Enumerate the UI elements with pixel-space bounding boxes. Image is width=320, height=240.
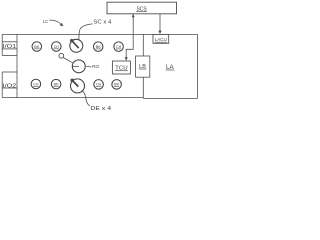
wire SCS to TCU (126, 14, 133, 59)
photoconductor drum CH (bottom row 3) (94, 80, 104, 90)
developing unit DE1 (top pen circle) (70, 39, 83, 52)
svg-text:BK: BK (96, 44, 102, 49)
leader squiggle to RO label (86, 65, 91, 68)
svg-text:DE x 4: DE x 4 (91, 106, 112, 112)
tray I/O2 (2, 72, 17, 90)
wire LB to bottom edge (142, 77, 144, 98)
box TCU (double border) (112, 61, 130, 74)
wire SCS to LACU (159, 14, 161, 32)
svg-text:CH: CH (33, 81, 38, 86)
photoconductor drum CH (top row 2) (52, 42, 62, 52)
svg-text:CH: CH (116, 44, 121, 49)
svg-text:BK: BK (34, 44, 40, 49)
arrowhead into LACU (159, 31, 162, 34)
photoconductor drum BK (bottom row 4) (112, 80, 122, 90)
photoconductor drum CH (top row 4) (114, 42, 124, 52)
arrowhead into TCU (125, 57, 128, 61)
leader arrow from LC (50, 20, 61, 23)
svg-text:CH: CH (54, 44, 59, 49)
arrowhead into SCS (from TCU line) (132, 14, 135, 17)
developing unit DE2 (bottom pen circle) (70, 79, 84, 93)
photoconductor drum BK (bottom row 2) (51, 79, 61, 89)
divider wall x=17 (16, 34, 18, 97)
svg-text:BK: BK (54, 81, 60, 86)
svg-text:LC: LC (43, 19, 49, 25)
machine body left wall lower (I/O2 side) (1, 72, 3, 98)
machine body left wall upper (I/O1 side) (1, 34, 3, 55)
svg-text:RO: RO (92, 64, 99, 70)
svg-text:SC x 4: SC x 4 (93, 20, 111, 26)
photoconductor drum BK (top row 1) (32, 42, 42, 52)
photoconductor drum BK (top row 3) (93, 42, 103, 52)
machine body bottom edge left (2, 97, 143, 99)
svg-text:LACU: LACU (155, 37, 167, 42)
photoconductor drum CH (bottom row 1) (31, 79, 41, 89)
leader from DE2 to label DE x 4 (82, 90, 90, 106)
svg-text:CH: CH (96, 82, 101, 87)
box SCS (107, 2, 177, 14)
registration roller RO (72, 60, 85, 73)
wire top edge to LB (142, 34, 144, 56)
svg-text:I/O2: I/O2 (3, 84, 17, 90)
machine body right wall (197, 34, 199, 98)
svg-text:BK: BK (114, 82, 120, 87)
wire S to RO (63, 57, 73, 63)
transfer roller S (small circle) (59, 53, 64, 58)
box LB (136, 56, 150, 77)
machine body bottom edge right (LA section) (143, 97, 197, 99)
box LACU (double border) (153, 34, 169, 43)
tray I/O1 (2, 42, 17, 56)
machine body top edge (2, 33, 197, 35)
leader from SC x 4 to developing unit DE1 (79, 24, 93, 39)
